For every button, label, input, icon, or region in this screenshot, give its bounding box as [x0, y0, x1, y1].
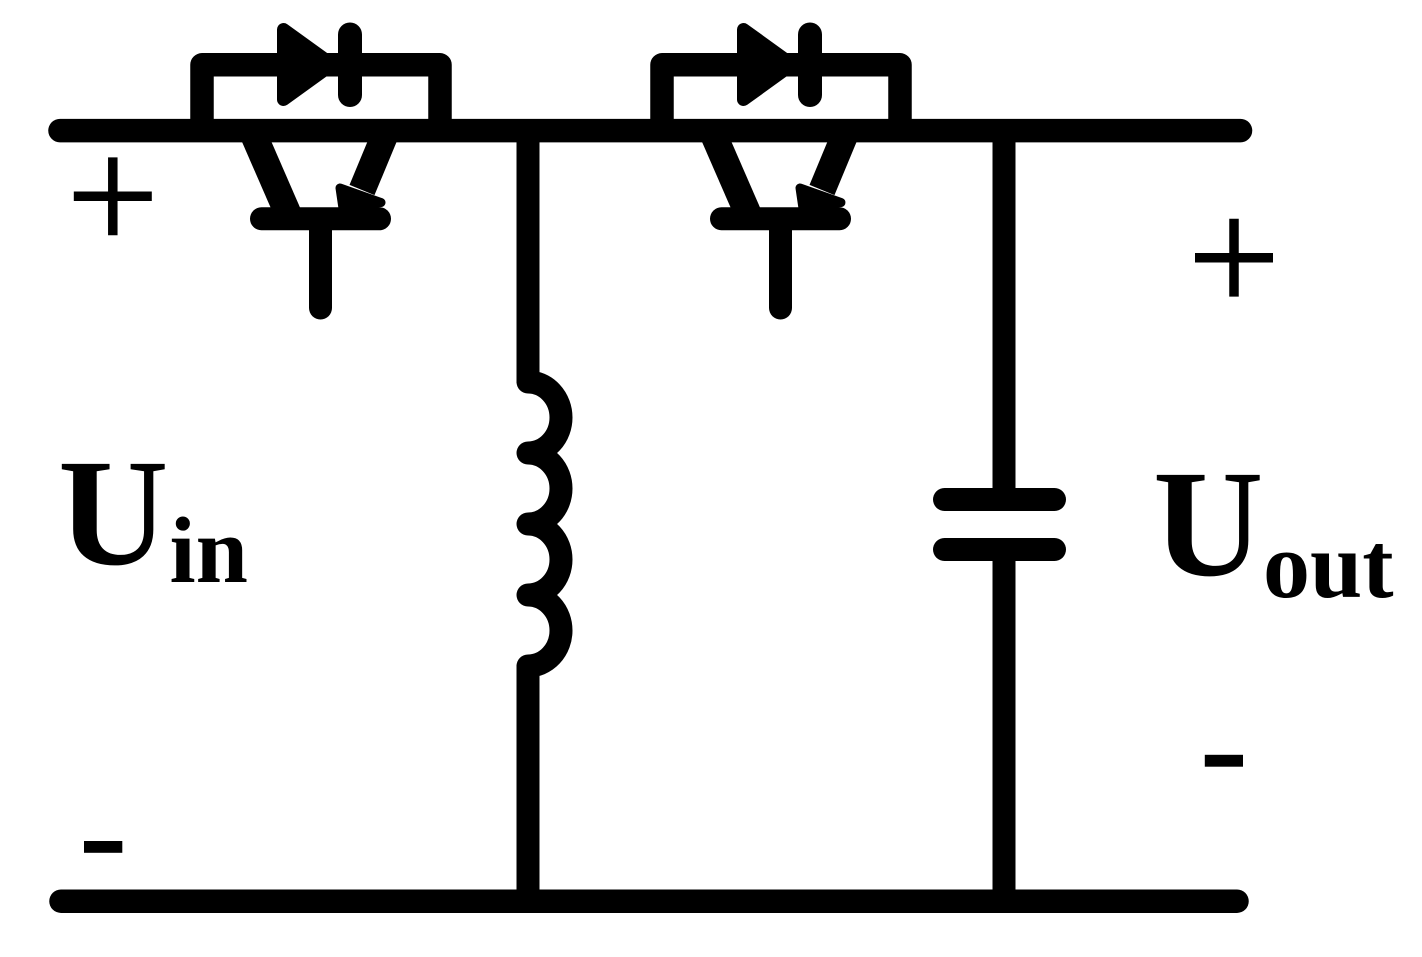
label Uout — [1153, 440, 1394, 618]
diode D2 anode triangle — [744, 30, 793, 100]
svg-text:out: out — [1263, 514, 1394, 618]
plus sign (input positive terminal) — [74, 157, 152, 235]
svg-text:in: in — [170, 499, 248, 603]
plus sign (output positive terminal) — [1195, 219, 1273, 297]
diode D1 anode triangle — [284, 30, 333, 100]
wire: capacitor branch upper segment — [993, 130, 1016, 499]
wire: inductor branch lower segment — [517, 665, 540, 901]
Q2 base bar — [722, 207, 840, 230]
wire: inductor branch upper segment — [517, 130, 540, 383]
wire: D1 loop — [202, 65, 440, 131]
wire: capacitor branch lower segment — [993, 550, 1016, 901]
svg-text:U: U — [58, 429, 169, 598]
Q2 base lead — [769, 219, 792, 308]
minus sign (input negative terminal) — [84, 841, 122, 853]
Q2 emitter diagonal — [822, 131, 847, 190]
Q2 emitter arrowhead — [800, 188, 841, 209]
minus sign (output negative terminal) — [1205, 755, 1243, 767]
svg-text:U: U — [1153, 440, 1264, 609]
wire: bottom rail — [61, 889, 1237, 913]
Q1 collector diagonal — [252, 131, 289, 216]
Q1 emitter arrowhead — [340, 188, 381, 209]
Q1 base bar — [262, 207, 380, 230]
diode D2 cathode bar — [798, 35, 822, 96]
Q1 emitter diagonal — [362, 131, 387, 190]
diode D1 cathode bar — [338, 35, 362, 96]
wire: top rail — [60, 119, 1241, 143]
inductor L winding — [528, 382, 561, 666]
wire: D2 loop — [662, 65, 900, 131]
capacitor C bottom plate — [945, 538, 1055, 561]
transistor Q2 with antiparallel diode D2 — [662, 30, 900, 309]
label Uin — [58, 429, 248, 603]
transistor Q1 with antiparallel diode D1 — [202, 30, 440, 309]
capacitor C top plate — [945, 488, 1055, 511]
Q1 base lead — [309, 219, 332, 308]
Q2 collector diagonal — [712, 131, 749, 216]
